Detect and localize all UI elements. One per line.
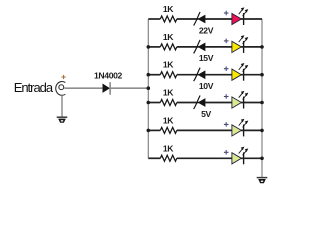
wire: right bus vertical	[261, 19, 263, 178]
LED D1 body	[232, 13, 244, 25]
ground at input connector	[57, 117, 68, 123]
resistor R1 value label 1K	[163, 4, 174, 14]
svg-text:22V: 22V	[199, 25, 214, 35]
LED D6 emission arrows	[239, 147, 248, 155]
wire: row 1 resistor to zener	[177, 18, 199, 20]
resistor R5	[160, 127, 177, 133]
wire: row 2 LED to right bus	[241, 46, 262, 48]
LED D2 plus polarity mark	[224, 39, 229, 44]
wire: row 1 zener to LED	[205, 18, 232, 20]
LED D2 emission arrows	[239, 36, 248, 44]
svg-text:1K: 1K	[163, 88, 174, 98]
resistor R3 value label 1K	[163, 60, 174, 70]
LED D1 emission arrows	[239, 8, 248, 16]
resistor R6 value label 1K	[163, 143, 174, 153]
svg-text:5V: 5V	[201, 109, 211, 119]
wire: row 4 zener to LED	[205, 102, 232, 104]
wire: row 6 resistor to LED	[177, 157, 232, 159]
wire: row 6 left bus to resistor	[148, 157, 160, 159]
zener diode D3	[194, 68, 205, 82]
zener D2 value label 15V	[199, 53, 214, 63]
svg-text:1K: 1K	[163, 60, 174, 70]
resistor R5 value label 1K	[163, 115, 174, 125]
junction right bus row 2	[260, 45, 264, 49]
svg-text:1N4002: 1N4002	[94, 71, 123, 81]
svg-text:10V: 10V	[199, 81, 214, 91]
wire: row 5 resistor to LED	[177, 129, 232, 131]
wire: row 5 LED to right bus	[241, 129, 262, 131]
junction left bus row 4	[147, 101, 151, 105]
zener diode D2	[194, 40, 205, 54]
LED D6 body	[232, 152, 244, 164]
resistor R4 value label 1K	[163, 88, 174, 98]
resistor R2 value label 1K	[163, 32, 174, 42]
resistor R6	[160, 155, 177, 161]
wire: row 3 resistor to zener	[177, 74, 199, 76]
ground at right bus bottom	[257, 178, 268, 184]
resistor R4	[160, 100, 177, 106]
LED D4 plus polarity mark	[224, 94, 229, 99]
wire: row 4 left bus to resistor	[148, 102, 160, 104]
junction right bus row 4	[260, 101, 264, 105]
junction left bus row 2	[147, 45, 151, 49]
wire: row 3 LED to right bus	[241, 74, 262, 76]
LED D5 emission arrows	[239, 119, 248, 127]
wire: left bus vertical	[147, 19, 149, 158]
svg-text:15V: 15V	[199, 53, 214, 63]
junction right bus row 5	[260, 129, 264, 133]
node Entrada label	[14, 80, 54, 95]
svg-text:1K: 1K	[163, 32, 174, 42]
junction right bus row 6	[260, 157, 264, 161]
connector J1 (input jack)	[56, 82, 66, 96]
junction input wire joins left bus	[147, 86, 151, 90]
wire: row 6 LED to right bus	[241, 157, 262, 159]
wire: row 2 left bus to resistor	[148, 46, 160, 48]
resistor R3	[160, 72, 177, 78]
svg-text:1K: 1K	[163, 115, 174, 125]
wire: connector down to ground	[61, 95, 63, 117]
svg-text:Entrada: Entrada	[14, 80, 54, 95]
wire: row 3 left bus to resistor	[148, 74, 160, 76]
wire: diode cathode to left bus	[110, 87, 148, 89]
LED D3 emission arrows	[239, 64, 248, 72]
LED D6 plus polarity mark	[224, 150, 229, 155]
resistor R1	[160, 16, 177, 22]
wire: row 4 LED to right bus	[241, 102, 262, 104]
zener D3 value label 10V	[199, 81, 214, 91]
LED D3 plus polarity mark	[224, 66, 229, 71]
wire: row 4 resistor to zener	[177, 102, 199, 104]
wire: row 1 left bus to resistor	[148, 18, 160, 20]
LED D5 body	[232, 125, 244, 137]
svg-text:1K: 1K	[163, 4, 174, 14]
resistor R2	[160, 44, 177, 50]
wire: connector to diode anode	[64, 87, 103, 89]
svg-text:1K: 1K	[163, 143, 174, 153]
LED D3 body	[232, 69, 244, 81]
LED D5 plus polarity mark	[224, 122, 229, 127]
zener D4 value label 5V	[201, 109, 211, 119]
junction left bus row 3	[147, 73, 151, 77]
LED D4 emission arrows	[239, 92, 248, 100]
diode D1 label 1N4002	[94, 71, 123, 81]
diode D1 1N4002	[103, 82, 110, 95]
LED D4 body	[232, 97, 244, 109]
wire: row 3 zener to LED	[205, 74, 232, 76]
zener diode D1	[194, 12, 205, 26]
wire: row 1 LED to right bus	[241, 18, 262, 20]
junction right bus row 3	[260, 73, 264, 77]
LED D1 plus polarity mark	[224, 11, 229, 16]
zener D1 value label 22V	[199, 25, 214, 35]
wire: row 2 zener to LED	[205, 46, 232, 48]
connector J1 plus polarity mark	[62, 75, 66, 79]
zener diode D4	[194, 96, 205, 110]
wire: row 5 left bus to resistor	[148, 129, 160, 131]
junction left bus row 5	[147, 129, 151, 133]
wire: row 2 resistor to zener	[177, 46, 199, 48]
LED D2 body	[232, 41, 244, 53]
